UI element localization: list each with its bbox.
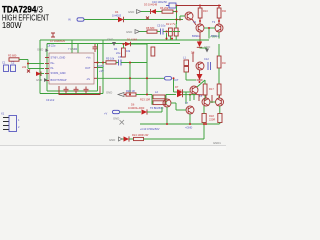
svg-text:C10 100u/50: C10 100u/50 [152,0,167,4]
svg-text:D4: D4 [115,10,119,14]
svg-text:GND: GND [128,10,134,14]
svg-text:R6 20k: R6 20k [160,6,169,10]
svg-text:X1: X1 [1,112,5,116]
svg-text:GND: GND [109,138,115,142]
svg-text:R17: R17 [209,87,214,91]
svg-text:GND: GND [37,48,43,52]
svg-text:GND: GND [70,47,76,51]
svg-text:D9: D9 [178,89,182,93]
svg-text:D2 2.7V: D2 2.7V [166,22,176,26]
svg-text:C9 2n2: C9 2n2 [46,98,55,102]
svg-text:BOOTSTRAP: BOOTSTRAP [51,78,67,82]
svg-text:1N4003+4003: 1N4003+4003 [128,106,145,110]
svg-text:+V: +V [104,112,108,116]
svg-text:R4: R4 [114,47,118,51]
svg-text:R20 1R: R20 1R [126,89,135,93]
svg-text:R8 680: R8 680 [146,26,155,30]
svg-text:<GND: <GND [185,126,192,130]
svg-text:1N4003: 1N4003 [112,14,122,18]
svg-text:BD911: BD911 [192,34,200,38]
svg-text:180W: 180W [2,20,22,30]
svg-text:D7: D7 [175,85,179,89]
svg-text:C5 10u: C5 10u [157,24,166,28]
svg-text:R10: R10 [203,9,208,13]
svg-text:GND: GND [106,91,112,95]
svg-text:IN-: IN- [51,66,55,70]
svg-text:GND: GND [36,78,42,82]
svg-text:GND1: GND1 [213,141,221,145]
svg-text:GND: GND [126,30,132,34]
svg-text:C6: C6 [118,55,122,59]
svg-text:C7 100n/63V: C7 100n/63V [50,39,65,43]
svg-text:R5 10k: R5 10k [106,57,115,61]
svg-text:R11: R11 [222,9,226,13]
svg-text:C8 22u: C8 22u [47,44,56,48]
svg-text:R3 680: R3 680 [8,54,17,58]
svg-text:220R: 220R [209,118,215,122]
svg-text:IN+: IN+ [51,61,56,65]
svg-text:C12: C12 [204,57,209,61]
svg-text:ST-BY_GND: ST-BY_GND [51,56,66,60]
svg-text:GND: GND [113,117,119,121]
svg-text:R23 10R: R23 10R [140,98,150,102]
svg-text:GND: GND [107,38,113,42]
svg-text:C2: C2 [11,61,15,65]
svg-text:SVR/S_GND: SVR/S_GND [51,71,66,75]
svg-text:10k: 10k [126,49,131,53]
svg-text:R16: R16 [222,61,226,65]
svg-text:+C13 4700u/50V: +C13 4700u/50V [140,127,160,131]
svg-text:22k: 22k [22,65,27,69]
svg-text:R24 100R 2W: R24 100R 2W [132,133,149,137]
svg-text:+39V: +39V [210,35,217,39]
svg-text:R18: R18 [209,114,214,118]
svg-text:22u: 22u [116,51,121,55]
svg-text:+3V: +3V [99,69,104,73]
svg-text:OUT: OUT [85,66,91,70]
svg-text:D1 4148: D1 4148 [127,38,137,42]
svg-text:+Vs: +Vs [86,56,91,60]
svg-text:C1: C1 [2,61,6,65]
svg-text:IN: IN [68,18,71,22]
